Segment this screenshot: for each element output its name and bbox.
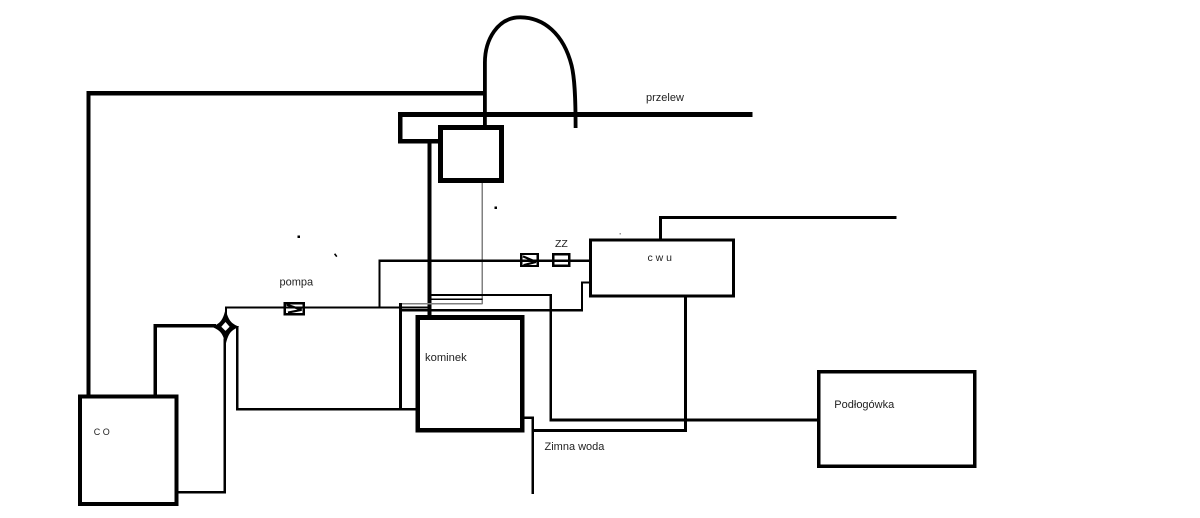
kominek fireplace box: [418, 318, 523, 431]
Podlogowka floor-heating box: [819, 372, 975, 466]
valve V1 diagonal: [523, 256, 536, 265]
wire: gray thin horizontal: [400, 303, 483, 304]
wire: przelew left step vertical: [398, 112, 402, 143]
valve V1 body: [521, 254, 537, 266]
wire: star bottom vertical down: [224, 339, 226, 494]
wire: main horizontal line to cwu: [379, 259, 591, 261]
expansion vessel box: [441, 128, 502, 181]
wire: star right vertical down: [236, 326, 238, 410]
star white center: [221, 322, 229, 331]
wire: cwu top vertical stub: [659, 217, 662, 241]
wire: thick vertical pipe down to kominek: [427, 141, 431, 316]
wire: vertical from A1 down to Podlogowka line: [550, 294, 552, 422]
wire: przelew horizontal pipe: [398, 112, 753, 117]
wire: long top-left horizontal pipe: [87, 91, 486, 96]
svg-text:c w u: c w u: [648, 252, 673, 264]
wire: jog horizontal to cwu left edge: [581, 281, 591, 283]
pompa valve body: [285, 303, 304, 314]
wire: left vertical pipe down to CO boiler: [87, 91, 91, 395]
svg-text:pompa: pompa: [280, 277, 315, 289]
stray dot 3: [494, 206, 497, 209]
svg-text:kominek: kominek: [425, 352, 467, 364]
wire: line C to cwu jog: [400, 309, 583, 311]
wire: line A2 short: [429, 298, 483, 300]
wire: vertical from main line down to pompa line: [379, 259, 381, 308]
wire: CO loop horizontal to star valve: [154, 324, 217, 327]
boiler C O box: [80, 396, 176, 504]
wire: horizontal to kominek left edge: [236, 408, 417, 411]
svg-text:Podłogówka: Podłogówka: [834, 399, 895, 411]
valve V2 (ZZ) body: [553, 254, 569, 265]
wire: vertical x400 down: [399, 303, 402, 410]
star mixing valve: [214, 312, 237, 341]
wire: pompa line horizontal: [225, 306, 431, 308]
wire: zimna woda vertical: [532, 416, 535, 493]
wire: kominek right stub to zimna woda: [521, 416, 534, 418]
svg-text:ZZ: ZZ: [555, 238, 568, 250]
stray gray dot 4: [619, 233, 621, 235]
wire: horizontal under kominek right: [533, 429, 687, 432]
svg-text:C O: C O: [94, 427, 110, 437]
svg-text:Zimna woda: Zimna woda: [545, 441, 606, 453]
wire: CO loop vertical: [154, 324, 157, 395]
wire: przelew step horizontal to expansion box: [398, 139, 441, 144]
svg-text:przelew: przelew: [646, 92, 684, 104]
arch overflow curve: [485, 17, 576, 128]
wire: jog vertical near cwu: [581, 281, 583, 311]
stray tick 2: [335, 254, 337, 257]
wire: cwu bottom vertical: [684, 296, 687, 432]
cwu tank box: [591, 240, 734, 296]
wire: thin gray vertical from expansion box: [482, 183, 483, 304]
stray dot 1: [297, 236, 300, 238]
wire: bottom horizontal to CO right edge: [177, 491, 227, 494]
wire: top right horizontal pipe: [659, 216, 897, 219]
wire: star top stub vertical: [225, 306, 227, 315]
wire: line A1 to right vertical: [429, 294, 552, 296]
wire: long horizontal to Podlogowka: [550, 419, 819, 422]
pompa valve diagonal: [287, 305, 302, 313]
